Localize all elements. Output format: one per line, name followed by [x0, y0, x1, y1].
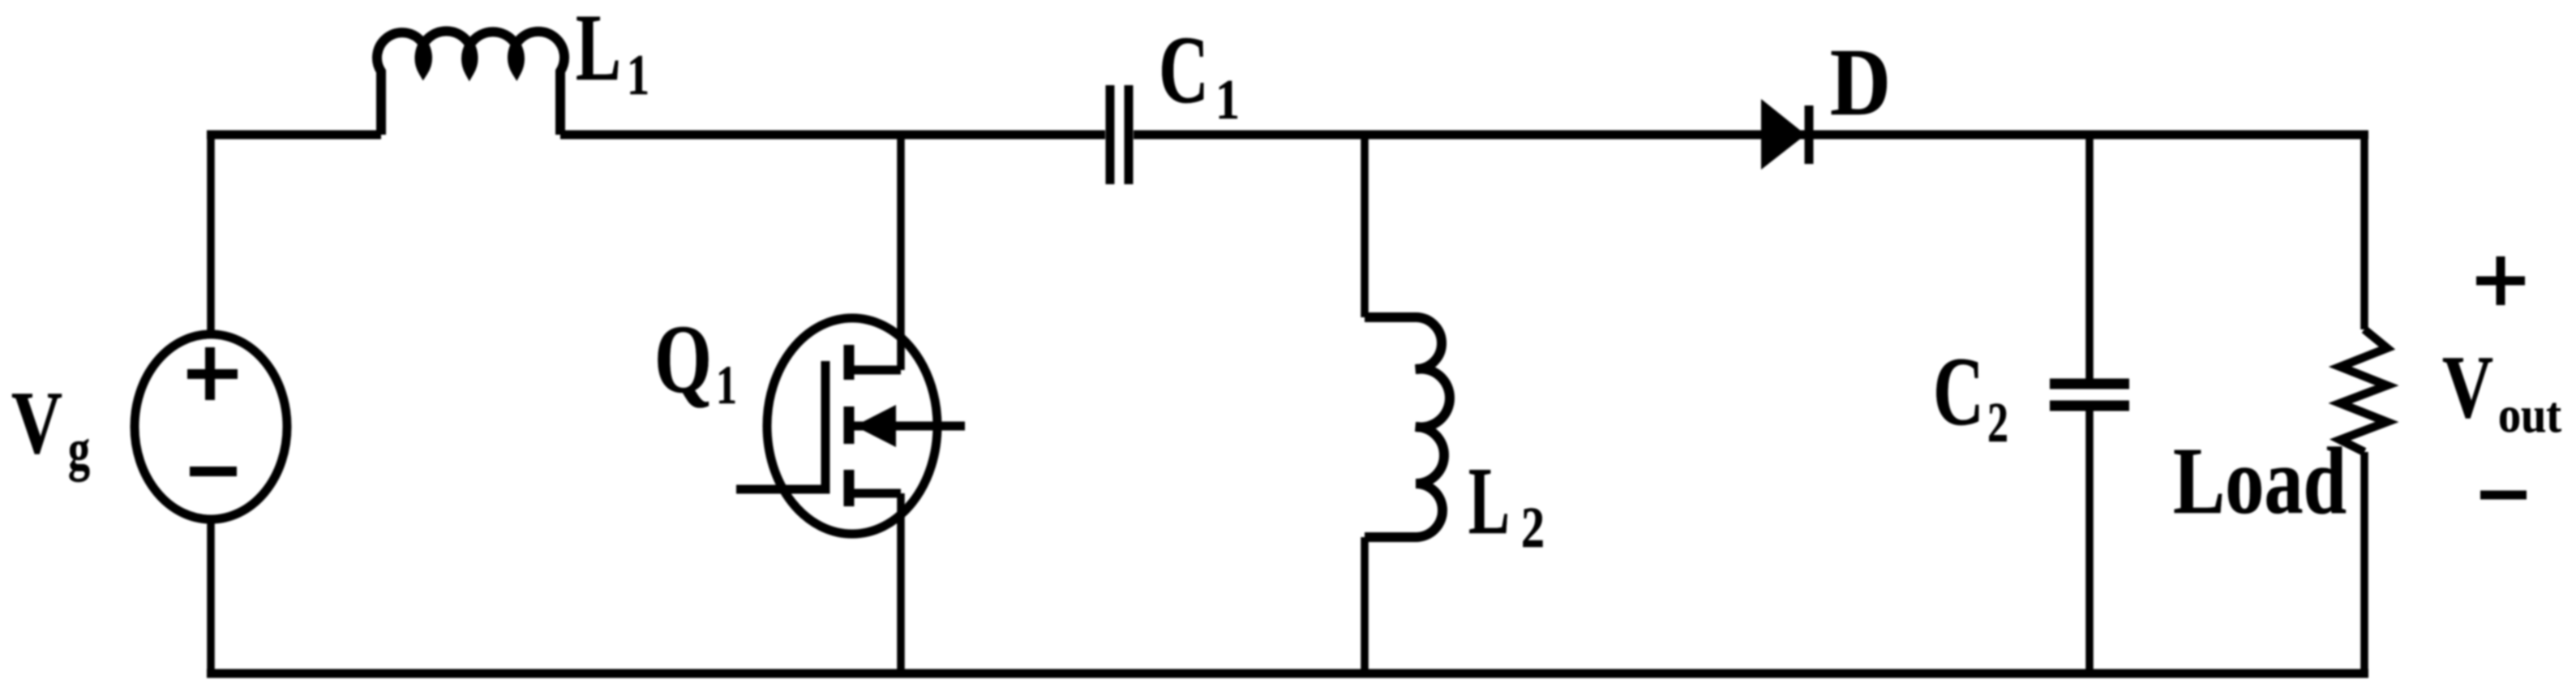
svg-text:C: C: [1933, 338, 1984, 446]
svg-text:L: L: [576, 0, 621, 101]
svg-text:C: C: [1159, 16, 1209, 123]
svg-text:Load: Load: [2173, 428, 2347, 534]
svg-text:L: L: [1468, 447, 1510, 554]
svg-text:2: 2: [1987, 392, 2008, 454]
svg-text:Q: Q: [654, 305, 712, 414]
svg-text:2: 2: [1521, 495, 1545, 560]
svg-text:D: D: [1830, 28, 1891, 136]
svg-text:g: g: [68, 417, 90, 482]
svg-text:1: 1: [1215, 69, 1240, 131]
svg-text:1: 1: [716, 354, 737, 415]
svg-text:out: out: [2498, 388, 2561, 443]
svg-text:V: V: [11, 373, 62, 472]
svg-text:1: 1: [627, 44, 649, 107]
svg-text:V: V: [2442, 338, 2493, 437]
